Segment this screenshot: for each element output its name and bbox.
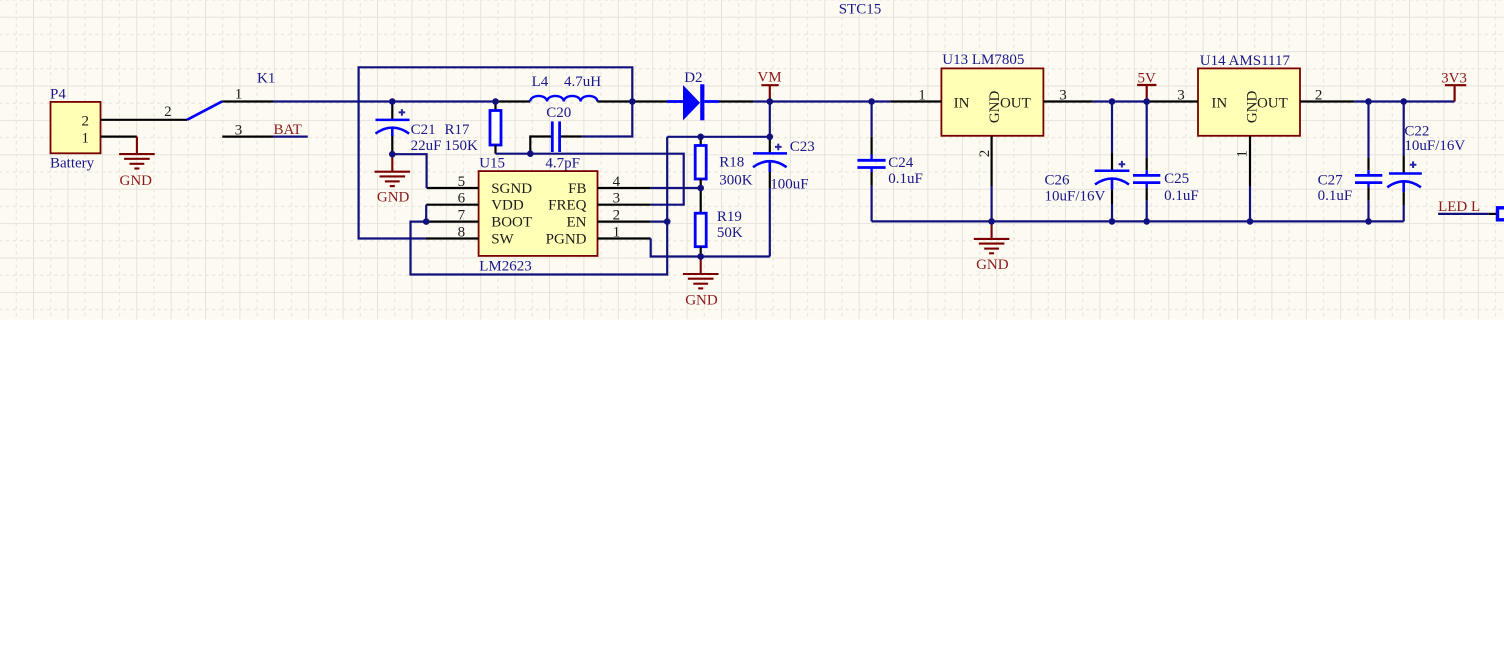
svg-text:1: 1	[82, 131, 90, 147]
svg-text:10uF/16V: 10uF/16V	[1404, 138, 1465, 154]
svg-text:C23: C23	[790, 139, 815, 155]
svg-text:P4: P4	[50, 86, 66, 102]
svg-text:LM2623: LM2623	[479, 258, 532, 274]
svg-text:U13 LM7805: U13 LM7805	[942, 52, 1024, 68]
wire: BAT stub	[273, 136, 308, 138]
pin: C26 bottom	[1111, 189, 1113, 204]
wire: EN stub to vertical	[651, 221, 668, 223]
switch lever	[187, 101, 222, 120]
wire: VDD down to BOOT	[425, 205, 427, 222]
svg-text:2: 2	[1315, 88, 1323, 104]
pin 1 PGND	[598, 237, 651, 239]
svg-text:IN: IN	[954, 96, 970, 112]
wire: PGND down to ground rail	[651, 239, 770, 257]
wire: R17 bottom / C20 left to FREQ	[496, 154, 684, 205]
wire: U13 pin2 to ground rail	[990, 186, 992, 221]
pin: C24 top	[870, 102, 872, 137]
svg-text:0.1uF: 0.1uF	[1164, 188, 1199, 204]
svg-text:SGND: SGND	[491, 181, 532, 197]
pin: C20 right	[561, 135, 582, 137]
pin 2 U14 OUT	[1300, 100, 1354, 102]
ground: U13 GND	[974, 221, 1010, 253]
svg-text:5: 5	[458, 174, 466, 190]
wire: SGND to C21 ground node	[392, 154, 426, 188]
svg-text:R18: R18	[719, 155, 744, 171]
svg-text:50K: 50K	[717, 225, 743, 241]
pin 5 SGND	[427, 187, 479, 189]
wire: LED_L	[1438, 213, 1489, 215]
svg-text:FB: FB	[568, 181, 586, 197]
svg-text:4.7uH: 4.7uH	[564, 74, 601, 90]
svg-text:U14 AMS1117: U14 AMS1117	[1200, 53, 1291, 69]
wire: feedback top rail	[667, 136, 770, 138]
pin: C24 bottom	[870, 168, 872, 173]
svg-text:1: 1	[235, 87, 243, 103]
svg-text:150K: 150K	[445, 138, 479, 154]
ground: C21 GND	[375, 154, 411, 186]
power port 5V	[1137, 71, 1156, 102]
pin: C25 bottom	[1145, 183, 1147, 188]
svg-text:Battery: Battery	[50, 155, 95, 171]
IC U15 LM2623	[479, 156, 598, 275]
sheet background	[0, 0, 1504, 320]
pin: C21 bottom	[391, 136, 393, 154]
pin: R18 bottom	[700, 179, 702, 188]
svg-text:4: 4	[613, 174, 621, 190]
svg-text:IN: IN	[1211, 96, 1227, 112]
svg-text:PGND: PGND	[546, 232, 587, 248]
svg-text:OUT: OUT	[1000, 96, 1031, 112]
svg-text:2: 2	[82, 113, 90, 129]
pin 3 U13 OUT	[1043, 100, 1092, 102]
capacitor C23 100uF (polarized)	[753, 137, 815, 193]
svg-text:4.7pF: 4.7pF	[545, 156, 580, 172]
pin: D2 anode	[632, 100, 667, 102]
svg-text:0.1uF: 0.1uF	[888, 171, 923, 187]
svg-text:1: 1	[1235, 150, 1251, 158]
wire: ground rail	[872, 220, 1404, 222]
svg-text:FREQ: FREQ	[548, 198, 587, 214]
capacitor C22 10uF/16V (polarized)	[1387, 102, 1465, 222]
pin: C22 bottom	[1403, 192, 1405, 205]
pin: C26 top	[1111, 102, 1113, 153]
pin: R17 top	[494, 102, 496, 111]
pin 7 BOOT	[426, 221, 478, 223]
svg-text:C26: C26	[1045, 173, 1071, 189]
svg-text:C22: C22	[1404, 124, 1429, 140]
capacitor C27 0.1uF	[1318, 102, 1383, 222]
pin: C22 top	[1403, 102, 1405, 156]
svg-text:L4: L4	[532, 74, 549, 90]
svg-text:3: 3	[235, 123, 243, 139]
resistor R17 150K	[445, 102, 502, 154]
resistor R19 50K	[695, 188, 743, 257]
svg-text:R19: R19	[717, 209, 742, 225]
svg-text:R17: R17	[445, 122, 471, 138]
wire: C20 right to SW node	[582, 102, 632, 137]
svg-text:STC15: STC15	[839, 2, 882, 18]
wire: SW loop (left vertical, top, right drop)	[359, 67, 633, 238]
capacitor C26 10uF/16V (polarized)	[1045, 102, 1130, 222]
svg-text:0.1uF: 0.1uF	[1318, 188, 1353, 204]
capacitor C20 4.7pF	[530, 105, 582, 172]
power port 3V3	[1441, 71, 1467, 102]
pin 6 VDD	[426, 204, 478, 206]
svg-text:GND: GND	[976, 257, 1009, 273]
svg-text:2: 2	[977, 150, 993, 158]
svg-text:C25: C25	[1164, 171, 1189, 187]
pin: C20 left	[530, 137, 551, 154]
svg-text:LED L: LED L	[1438, 199, 1480, 215]
inductor L4 4.7uH	[496, 74, 633, 102]
pin: C23 bottom	[769, 172, 771, 188]
svg-text:BOOT: BOOT	[491, 215, 532, 231]
pin: C27 top	[1367, 102, 1369, 158]
svg-text:100uF: 100uF	[770, 176, 808, 192]
connector stub (clipped at sheet edge)	[1498, 208, 1504, 220]
pin 1 U14 GND	[1249, 136, 1251, 186]
IC U14 AMS1117	[1198, 53, 1300, 136]
wire: FB to R18/R19 junction	[651, 187, 701, 189]
svg-text:6: 6	[458, 191, 466, 207]
pin: C21 top	[391, 102, 393, 120]
pin 1 U13 IN	[890, 100, 941, 102]
pin: C27 bottom	[1367, 183, 1369, 188]
pin: K1 pin 3	[222, 136, 273, 138]
capacitor C21 22uF (polarized)	[376, 102, 442, 155]
svg-text:3: 3	[1177, 88, 1185, 104]
wire: U14 out to 3V3	[1354, 100, 1454, 102]
ground: R19 GND	[683, 257, 719, 289]
svg-text:K1: K1	[257, 71, 275, 87]
svg-text:3: 3	[1059, 88, 1067, 104]
svg-text:EN: EN	[567, 215, 587, 231]
pin: P4 pin 1	[101, 136, 137, 138]
pin 8 SW	[426, 237, 479, 239]
svg-text:8: 8	[458, 225, 466, 241]
pin: C25 top	[1146, 102, 1148, 158]
pin: P4 pin 2	[101, 119, 188, 121]
ground: battery GND	[119, 137, 155, 169]
IC U13 LM7805	[941, 52, 1043, 136]
svg-text:2: 2	[164, 104, 172, 120]
svg-text:D2: D2	[684, 70, 702, 86]
power port VM	[757, 70, 781, 102]
pin: L4 left	[496, 100, 531, 102]
svg-text:1: 1	[918, 88, 926, 104]
pin: C23 top	[769, 137, 771, 153]
capacitor C24 0.1uF	[857, 102, 922, 222]
svg-text:3: 3	[613, 191, 621, 207]
pin: L4 right	[597, 100, 632, 102]
pin 2 U13 GND	[990, 136, 992, 186]
svg-text:22uF: 22uF	[411, 138, 442, 154]
svg-text:OUT: OUT	[1257, 96, 1288, 112]
svg-text:SW: SW	[491, 232, 514, 248]
pin 2 EN	[598, 221, 651, 223]
svg-text:C27: C27	[1318, 173, 1344, 189]
wire: K1 to input rail	[273, 100, 496, 102]
svg-text:VDD: VDD	[491, 198, 524, 214]
svg-text:7: 7	[458, 208, 466, 224]
svg-text:C24: C24	[888, 155, 914, 171]
svg-text:10uF/16V: 10uF/16V	[1045, 188, 1106, 204]
svg-text:U15: U15	[479, 156, 505, 172]
capacitor C25 0.1uF	[1133, 102, 1199, 222]
pin: R19 bottom	[700, 247, 702, 257]
svg-text:C21: C21	[411, 122, 436, 138]
svg-text:GND: GND	[377, 190, 410, 206]
wire: U14 pin1 to ground rail	[1249, 186, 1251, 221]
wire: C23 to ground rail	[769, 188, 771, 257]
pin: R19 top	[700, 188, 702, 213]
pin: R18 top	[700, 137, 702, 146]
pin 3 FREQ	[598, 204, 651, 206]
resistor R18 300K	[695, 137, 753, 189]
svg-text:1: 1	[613, 225, 621, 241]
pin: R17 bottom	[494, 145, 496, 154]
junction dots	[389, 98, 1407, 260]
wire: VM node down to feedback rail	[769, 102, 771, 137]
pin: D2 cathode	[719, 100, 753, 102]
wire: U13 out to 5V node	[1093, 100, 1147, 102]
pin 4 FB	[598, 187, 651, 189]
svg-text:GND: GND	[685, 292, 718, 308]
switch K1	[164, 71, 275, 139]
pin 3 U14 IN	[1147, 100, 1198, 102]
diode D2	[632, 70, 753, 120]
wire: BOOT loop under IC to EN vertical	[411, 137, 668, 275]
svg-text:C20: C20	[546, 105, 571, 121]
svg-text:VM: VM	[757, 70, 781, 86]
svg-text:GND: GND	[120, 173, 153, 189]
connector P4 (Battery)	[50, 86, 101, 171]
svg-text:GND: GND	[1244, 90, 1260, 123]
pin: K1 pin 1	[222, 100, 273, 102]
svg-text:300K: 300K	[719, 173, 753, 189]
wire: diode to U13 input rail	[753, 100, 890, 102]
svg-text:GND: GND	[987, 90, 1003, 123]
svg-text:2: 2	[613, 208, 621, 224]
pin: LED_L port pin	[1489, 213, 1498, 215]
